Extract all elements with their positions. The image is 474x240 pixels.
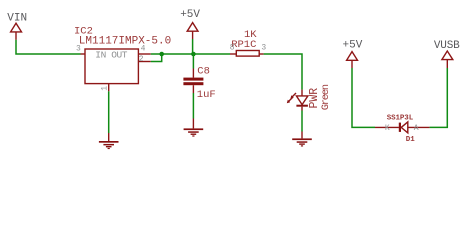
svg-text:K: K bbox=[385, 124, 390, 133]
svg-text:VIN: VIN bbox=[7, 13, 27, 25]
wire +5V to node bbox=[192, 39, 194, 54]
svg-text:8: 8 bbox=[230, 44, 235, 53]
wire C8 to ground bbox=[192, 93, 194, 119]
supply symbol VIN bbox=[7, 13, 27, 40]
svg-text:2: 2 bbox=[139, 55, 144, 64]
svg-text:+5V: +5V bbox=[180, 9, 200, 21]
wire resistor to LED bbox=[264, 54, 302, 90]
emission arrow 2 bbox=[288, 98, 292, 102]
wire diode A to VUSB bbox=[430, 68, 448, 127]
ground under LED bbox=[292, 132, 312, 147]
supply symbol +5V (left) bbox=[180, 9, 200, 39]
wire pin4 to node bbox=[151, 53, 230, 55]
wire +5V right down to diode K bbox=[352, 68, 375, 127]
pin 2 (OUT) stub bbox=[138, 61, 150, 63]
wire pin2 loop to node bbox=[151, 54, 162, 62]
junction node at +5V / C8 bbox=[191, 52, 196, 57]
svg-text:A: A bbox=[414, 124, 419, 133]
svg-text:RP1C: RP1C bbox=[231, 39, 256, 51]
wire VIN to IC2 IN bbox=[16, 40, 81, 54]
svg-text:+5V: +5V bbox=[343, 39, 363, 51]
svg-text:SS1P3L: SS1P3L bbox=[387, 115, 414, 123]
resistor RP1C 1K bbox=[230, 29, 267, 56]
pin 1 (GND) stub bbox=[108, 84, 110, 92]
svg-text:4: 4 bbox=[141, 45, 146, 54]
LED PWR Green bbox=[287, 84, 332, 110]
supply symbol +5V (right) bbox=[343, 39, 363, 68]
svg-text:D1: D1 bbox=[406, 136, 416, 144]
diode D1 SS1P3L bbox=[375, 115, 430, 145]
svg-text:3: 3 bbox=[76, 44, 81, 53]
wire node down to C8 bbox=[192, 54, 194, 69]
svg-text:1: 1 bbox=[101, 86, 110, 91]
capacitor C8 1uF bbox=[183, 66, 215, 101]
wire LED to ground bbox=[301, 111, 303, 132]
wire IC2 pin1 to ground bbox=[108, 91, 110, 133]
regulator IC2 LM1117IMPX-5.0 bbox=[74, 26, 171, 92]
supply symbol VUSB bbox=[434, 40, 460, 68]
junction node at pin4 net bbox=[159, 52, 164, 57]
svg-text:C8: C8 bbox=[197, 66, 210, 78]
pin 4 (OUT tab) stub bbox=[138, 53, 150, 55]
ground under IC2 bbox=[99, 133, 119, 149]
pin 3 (IN) stub bbox=[81, 53, 86, 55]
svg-text:LM1117IMPX-5.0: LM1117IMPX-5.0 bbox=[79, 35, 171, 47]
svg-text:3: 3 bbox=[261, 44, 266, 53]
svg-text:IN OUT: IN OUT bbox=[95, 50, 128, 61]
svg-text:Green: Green bbox=[320, 84, 332, 110]
ground under C8 bbox=[184, 119, 204, 137]
emission arrow 1 bbox=[292, 93, 296, 97]
svg-text:1uF: 1uF bbox=[197, 89, 216, 101]
